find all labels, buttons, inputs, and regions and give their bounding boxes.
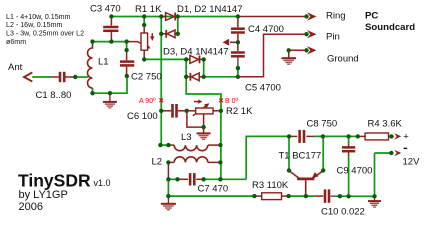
svg-text:R1 1K: R1 1K	[135, 4, 162, 15]
svg-text:12V: 12V	[403, 157, 421, 168]
svg-text:B 0º: B 0º	[225, 98, 239, 105]
svg-text:C4 4700: C4 4700	[248, 24, 284, 35]
svg-text:C5 4700: C5 4700	[245, 83, 281, 94]
svg-text:C3 470: C3 470	[90, 4, 121, 15]
svg-text:D1, D2 1N4147: D1, D2 1N4147	[177, 4, 242, 15]
svg-text:C6 100: C6 100	[127, 111, 158, 122]
svg-text:ø6mm: ø6mm	[6, 38, 26, 46]
svg-text:2006: 2006	[19, 201, 43, 213]
svg-text:C1 8..80: C1 8..80	[36, 90, 72, 101]
svg-text:+: +	[403, 132, 409, 143]
svg-text:L3 - 3w, 0.25mm over L2: L3 - 3w, 0.25mm over L2	[6, 30, 84, 38]
svg-text:R2 1K: R2 1K	[226, 106, 253, 117]
svg-text:L1 - 4+10w, 0.15mm: L1 - 4+10w, 0.15mm	[6, 13, 71, 21]
svg-text:Pin: Pin	[326, 32, 340, 43]
svg-text:Ring: Ring	[326, 11, 346, 22]
svg-text:C9 4700: C9 4700	[337, 166, 373, 177]
svg-text:R3 110K: R3 110K	[252, 180, 289, 191]
svg-text:v1.0: v1.0	[94, 178, 111, 188]
svg-text:L3: L3	[181, 132, 192, 143]
svg-text:C8 750: C8 750	[307, 119, 338, 130]
svg-text:L1: L1	[98, 57, 109, 68]
svg-text:Soundcard: Soundcard	[365, 22, 415, 33]
svg-text:PC: PC	[365, 11, 378, 22]
svg-text:C2 750: C2 750	[131, 72, 162, 83]
svg-text:L2: L2	[152, 157, 163, 168]
svg-text:L2 - 16w, 0.15mm: L2 - 16w, 0.15mm	[6, 21, 62, 29]
svg-text:by LY1GP: by LY1GP	[19, 189, 68, 201]
svg-text:Ant: Ant	[8, 62, 23, 73]
svg-text:Ground: Ground	[327, 54, 359, 65]
svg-text:T1 BC177: T1 BC177	[279, 151, 322, 162]
svg-text:R4 3.6K: R4 3.6K	[368, 118, 403, 129]
svg-text:D3, D4 1N4147: D3, D4 1N4147	[163, 47, 228, 58]
svg-text:A 90º: A 90º	[139, 98, 156, 105]
svg-text:TinySDR: TinySDR	[18, 171, 91, 191]
svg-text:C10 0.022: C10 0.022	[321, 207, 365, 218]
svg-text:C7 470: C7 470	[198, 184, 229, 195]
